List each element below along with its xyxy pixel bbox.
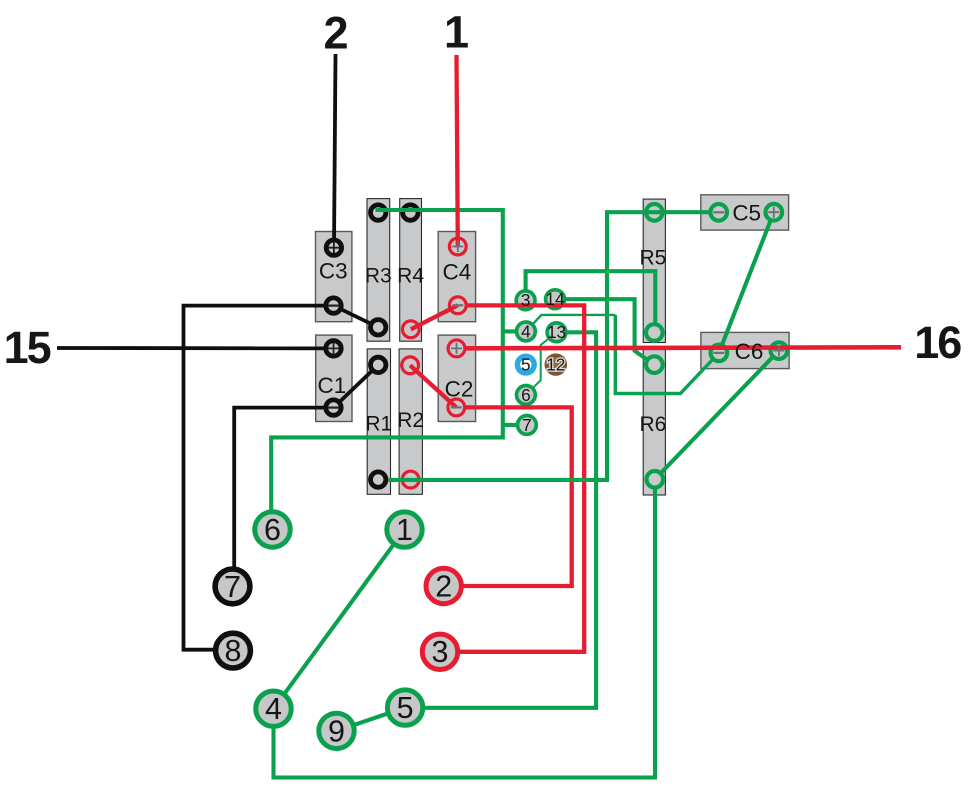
wire circle 1 to circle 4 (274, 530, 405, 709)
wire node 13 to node 6 thin (526, 332, 557, 395)
symbol C2+ (451, 343, 462, 354)
terminal 9 green (319, 713, 354, 748)
capacitor C6 body (701, 332, 789, 368)
terminal 1 green (387, 512, 422, 547)
pad C4+ (449, 238, 466, 255)
wire circle 9 to circle 5 (337, 708, 406, 731)
svg-text:R2: R2 (397, 409, 424, 432)
wire node 4 to C6- lower part (615, 315, 719, 394)
pad C5- (710, 204, 727, 221)
symbol C6+ (773, 345, 784, 356)
svg-text:7: 7 (224, 570, 241, 604)
GREEN WIRE bottom over red (389, 478, 609, 482)
wire vertical branch to node 7 (503, 423, 527, 427)
node 3 (516, 291, 535, 310)
resistor R4 body (400, 199, 422, 342)
pad R4 top (403, 205, 418, 220)
symbol C3+ (328, 242, 339, 253)
svg-text:6: 6 (264, 513, 281, 547)
wire node 4 to C6- thin part (526, 315, 615, 332)
svg-text:3: 3 (432, 635, 449, 669)
svg-text:3: 3 (521, 290, 531, 310)
svg-text:5: 5 (397, 691, 414, 725)
resistor R5 body (643, 199, 665, 342)
pad C2+ (448, 340, 465, 357)
PAD SYMBOLS (328, 207, 784, 408)
wire node 3 to R5 bottom (526, 271, 656, 332)
svg-text:13: 13 (547, 322, 566, 342)
wire terminal1 to C4+ (457, 55, 458, 247)
svg-text:12: 12 (546, 355, 565, 375)
symbol C2- (451, 406, 462, 408)
svg-text:C1: C1 (318, 373, 347, 398)
pad R1 bottom (371, 472, 386, 487)
capacitor C1 body (316, 335, 352, 421)
NUMBERED CIRCLES (215, 290, 566, 749)
symbol C3- (328, 305, 339, 307)
pad C3- (326, 298, 341, 313)
wire C2- to R2 top (410, 365, 456, 407)
svg-text:8: 8 (225, 634, 242, 668)
pad R5 bottom (646, 324, 663, 341)
svg-text:1: 1 (444, 7, 469, 58)
symbol C5+ (768, 207, 779, 218)
svg-text:R3: R3 (365, 265, 392, 288)
resistor R3 body (367, 199, 390, 342)
terminal 6 green (255, 512, 290, 547)
svg-text:R6: R6 (639, 413, 666, 436)
node 13 (547, 323, 566, 342)
svg-text:C6: C6 (735, 339, 764, 364)
pad C6- (711, 345, 728, 362)
wire label15 to C1+ (57, 346, 334, 350)
wire circle 4 to R6 bottom (274, 479, 656, 777)
svg-text:R4: R4 (397, 265, 424, 288)
pad R6 top (646, 356, 663, 373)
svg-text:9: 9 (328, 714, 345, 748)
svg-text:C5: C5 (732, 201, 761, 226)
capacitor C2 body (438, 335, 475, 421)
node 6 (517, 386, 536, 405)
terminal 2 red (426, 568, 461, 603)
terminal 3 red (422, 634, 457, 669)
svg-text:R5: R5 (639, 247, 666, 270)
pad R3 top (371, 205, 386, 220)
svg-text:14: 14 (545, 289, 565, 309)
symbol C4- (452, 304, 463, 306)
pad C2- (448, 399, 465, 416)
svg-text:2: 2 (323, 8, 348, 59)
pad C3+ (326, 240, 341, 255)
svg-text:C2: C2 (445, 377, 474, 402)
capacitor C4 body (438, 232, 475, 322)
node 7 (518, 416, 537, 435)
wire C1- to circle 7 (234, 408, 333, 585)
terminal 4 green (256, 691, 291, 726)
pad R5 top (646, 204, 663, 221)
svg-text:5: 5 (521, 355, 531, 375)
wire C3- to circle 8 (184, 306, 334, 650)
terminal 7 black (215, 569, 250, 604)
svg-text:6: 6 (521, 385, 531, 405)
wire node 14 to R6 top (555, 299, 654, 364)
BLACK WIRES (57, 54, 378, 650)
node 5 blue (517, 356, 534, 373)
wire C4- to circle 3 (458, 305, 584, 651)
wire C5+ to C6- (719, 212, 774, 353)
svg-text:16: 16 (914, 317, 961, 368)
GREEN WIRES over pads (271, 210, 709, 530)
svg-text:R1: R1 (365, 413, 392, 436)
wire C2- to circle 2 (462, 407, 572, 586)
wire vertical branch to node 4 (503, 329, 526, 333)
capacitor C3 body (316, 232, 352, 322)
svg-text:2: 2 (435, 569, 452, 603)
terminal 8 black (216, 633, 251, 668)
resistor R2 body (399, 349, 422, 494)
wire R1/R2 bottom to vertical (389, 478, 609, 482)
wire C1- to R1 top (334, 365, 379, 408)
resistor R6 body (643, 350, 665, 496)
pad R3 bottom (371, 320, 386, 335)
svg-text:7: 7 (522, 415, 532, 435)
svg-text:C3: C3 (319, 258, 348, 283)
wire C4- to R4 bottom (411, 305, 458, 329)
wire C6+ to R6 bottom (655, 351, 779, 480)
pad R4 bottom (402, 321, 419, 338)
wire C3- to R3 bottom (334, 306, 379, 328)
svg-text:4: 4 (521, 321, 531, 341)
GREEN WIRES under pads (274, 212, 779, 777)
RECTS (316, 195, 790, 495)
pad R2 bottom (402, 471, 419, 488)
node 4 (517, 322, 536, 341)
capacitor C5 body (701, 195, 789, 230)
pad C6+ (771, 342, 788, 359)
terminal 5 green (387, 690, 422, 725)
symbol C6- (713, 352, 724, 354)
pad C5+ (766, 204, 783, 221)
wire C2+ to label 16 (465, 347, 901, 348)
svg-text:4: 4 (265, 692, 282, 726)
svg-text:C4: C4 (443, 260, 472, 285)
pad R1 top (371, 357, 386, 372)
RED WIRES (410, 55, 901, 652)
svg-text:15: 15 (4, 322, 51, 373)
pad R2 top (402, 357, 419, 374)
symbol C1- (328, 407, 339, 409)
PADS (326, 204, 787, 488)
wire node 13 to circle 5 (405, 332, 596, 708)
svg-text:1: 1 (396, 513, 413, 547)
pad C1- (326, 400, 341, 415)
wire terminal2 to C3+ (334, 54, 336, 248)
wire R3 top to circle 6 (271, 210, 503, 530)
symbol C1+ (328, 343, 339, 354)
symbol C4+ (452, 241, 463, 252)
wire R1 bottom to C5- vertical (605, 212, 709, 480)
pad R6 bottom (647, 471, 664, 488)
pad C1+ (326, 341, 341, 356)
pad C4- (449, 297, 466, 314)
resistor R1 body (367, 349, 390, 494)
node 14 (546, 290, 565, 309)
symbol C5- (713, 211, 724, 213)
node 12 brown (546, 355, 565, 374)
